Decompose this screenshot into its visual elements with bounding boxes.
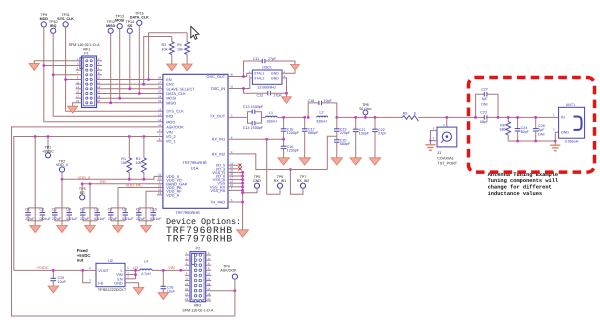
wire P1 left stub <box>76 92 82 94</box>
wire P1 pin10 to U1 EN <box>97 79 163 81</box>
svg-text:27pF: 27pF <box>268 57 277 61</box>
svg-text:14: 14 <box>158 119 161 122</box>
svg-text:VOUT: VOUT <box>98 269 109 273</box>
wire main RF line L1 to C17 <box>284 116 305 118</box>
U1 right pin numbers <box>230 74 233 203</box>
svg-text:0.01uF: 0.01uF <box>94 217 106 221</box>
capacitor C25 10uF <box>52 270 54 278</box>
U1 right pin labels <box>206 74 226 205</box>
wire VIN/EN tie <box>135 270 137 278</box>
svg-text:0.950uH: 0.950uH <box>565 140 579 144</box>
wire ANT1 GND pin riser <box>555 132 558 141</box>
wire L4 to P2 <box>152 269 185 271</box>
svg-text:680: 680 <box>500 128 506 132</box>
U1 left pin labels <box>166 77 195 197</box>
svg-text:10k: 10k <box>162 48 168 52</box>
svg-text:26: 26 <box>158 86 161 89</box>
junction MOSI-TP13 <box>118 97 121 100</box>
junction main-J1 <box>445 116 448 119</box>
junction J1 ground stub <box>429 140 431 142</box>
junction C27 loop right <box>497 116 500 119</box>
wire P1 pin7 to TP10/IRQ <box>53 74 81 76</box>
junction IRQ-P1 <box>52 73 55 76</box>
svg-text:COAXIAL: COAXIAL <box>437 156 453 160</box>
wire R4 top to EN net <box>149 33 188 80</box>
junction R1-VDD_X <box>128 178 131 181</box>
svg-text:RX_IN1: RX_IN1 <box>212 137 226 142</box>
svg-text:SS: SS <box>127 24 132 28</box>
junction rail-C24 <box>516 140 519 143</box>
svg-text:R5: R5 <box>403 112 408 116</box>
wire P1 pin5 stub <box>76 69 82 71</box>
junction main-C19 chain <box>335 116 338 119</box>
capacitor C20 680pF <box>334 140 340 142</box>
junction VIN-P2 <box>179 269 182 272</box>
svg-text:100pF: 100pF <box>359 132 370 136</box>
junction main-C21 <box>354 116 357 119</box>
junction R2 top <box>143 135 146 138</box>
ground at J1 <box>425 145 435 150</box>
wire U2 GND to ground <box>125 283 139 288</box>
svg-text:R3: R3 <box>162 43 167 47</box>
svg-text:330nH: 330nH <box>316 119 327 123</box>
svg-text:L4: L4 <box>144 260 148 264</box>
svg-text:2.2uF: 2.2uF <box>80 217 90 221</box>
svg-text:IN: IN <box>561 116 565 120</box>
wire R5 to antenna section <box>419 116 476 118</box>
svg-text:TPS61222DCKT: TPS61222DCKT <box>98 288 127 292</box>
svg-text:VDD_PA: VDD_PA <box>126 184 141 188</box>
svg-text:TRF796xRHB: TRF796xRHB <box>182 160 207 165</box>
junction TX node C15 <box>282 116 285 119</box>
svg-text:BG: BG <box>100 180 106 184</box>
svg-text:GND: GND <box>253 179 261 183</box>
junction R2-VDD_X <box>143 178 146 181</box>
wire VDD_RF net to U1 <box>146 190 163 192</box>
svg-text:10uF: 10uF <box>58 280 67 284</box>
junction main-C18 left <box>307 116 310 119</box>
junction VIN-C26 <box>162 269 165 272</box>
junction EN2 pullup R3 <box>142 83 145 86</box>
wire C23 to ANT1 <box>487 116 559 118</box>
wire P1 pin9 to TP11/SYS_CLK <box>66 79 82 81</box>
svg-text:RX_IN2: RX_IN2 <box>212 151 226 156</box>
svg-text:13.560MHz: 13.560MHz <box>257 85 276 89</box>
wire P1 pin16 to U1 DATA_CLK <box>97 93 163 95</box>
svg-text:U1A: U1A <box>191 166 199 171</box>
svg-text:VSS_PA: VSS_PA <box>210 188 225 193</box>
svg-text:OSC_OUT: OSC_OUT <box>206 74 225 79</box>
capacitor C16 1200pF <box>283 139 285 146</box>
wire P1 pin12 to U1 EN2 <box>97 83 163 85</box>
svg-text:82pF: 82pF <box>521 130 530 134</box>
svg-text:10pF: 10pF <box>324 99 333 103</box>
wire C7/C8 rails and riser <box>111 207 125 209</box>
ground below C3/C4 <box>61 221 63 226</box>
wire P2 to TP4 <box>211 290 235 292</box>
capacitor C26 2pF DNI <box>535 117 537 128</box>
svg-text:1200pF: 1200pF <box>287 131 300 135</box>
svg-text:C13 1500pF: C13 1500pF <box>243 105 264 109</box>
junction DATA_CLK-TP15 <box>138 92 141 95</box>
wire TP14/SS vertical <box>129 33 131 88</box>
svg-text:1pF: 1pF <box>481 97 488 101</box>
svg-text:C12: C12 <box>257 94 264 98</box>
svg-text:RF2: RF2 <box>194 304 201 308</box>
U2 pin stubs and numbers <box>91 269 96 271</box>
svg-text:SYS_CLK: SYS_CLK <box>57 17 74 21</box>
svg-text:27pF: 27pF <box>378 132 387 136</box>
wire RX_IN2 riser to C19/C20 tap <box>327 136 337 169</box>
wire P1 left stub <box>76 83 82 85</box>
svg-text:VDD_X: VDD_X <box>78 176 91 180</box>
wire TP10/IRQ vertical + IRQ run to U1 <box>53 33 163 116</box>
svg-text:0.01uF: 0.01uF <box>150 217 162 221</box>
junction SS-TP14 <box>128 87 131 90</box>
wire main line C19 to R5 <box>337 116 403 118</box>
wire OSC_IN to crystal pin3 <box>228 78 252 89</box>
wire U2 FB loop <box>83 270 91 282</box>
svg-text:GND: GND <box>114 281 123 285</box>
wire TX_OUT from U1 <box>228 116 248 118</box>
svg-text:ANT1: ANT1 <box>566 103 575 107</box>
ground below C21 <box>350 158 361 165</box>
svg-text:2.2uF: 2.2uF <box>136 217 146 221</box>
wire C1/C2 rails and riser <box>28 207 42 209</box>
wire RX_IN1 from U1 <box>228 138 284 140</box>
svg-text:MOD: MOD <box>40 17 49 21</box>
svg-text:IRQ: IRQ <box>50 24 57 28</box>
junction main-TP8 <box>364 116 367 119</box>
svg-text:J1: J1 <box>437 151 441 155</box>
junction rail-C26 <box>534 140 537 143</box>
wire P1 pin3 to TP9/MOD <box>44 65 82 67</box>
wire P1 right stub <box>97 60 103 62</box>
wire P1 left stub <box>76 88 82 90</box>
connector J1 coaxial test port <box>446 117 448 127</box>
U1 left pin numbers <box>158 77 161 195</box>
junction R1 top <box>128 135 131 138</box>
junction TP7-RX_IN2 <box>289 168 292 171</box>
wire TP12/MISO vertical <box>110 33 112 102</box>
junction main-C26 <box>534 116 537 119</box>
svg-text:C14 1500pF: C14 1500pF <box>243 126 264 130</box>
svg-text:DNI: DNI <box>538 132 544 136</box>
wire TP9/MOD vertical + MOD run to U1 <box>44 27 163 122</box>
wire OSC_OUT to crystal <box>228 73 252 76</box>
svg-text:68pF: 68pF <box>480 120 489 124</box>
svg-text:2.2uF: 2.2uF <box>25 217 35 221</box>
ground below C26 <box>158 293 168 300</box>
svg-text:0: 0 <box>414 112 416 116</box>
P1 pin numbers <box>76 58 100 103</box>
svg-text:inductance values: inductance values <box>488 191 543 197</box>
svg-text:1200pF: 1200pF <box>287 149 300 153</box>
capacitor C19 220pF <box>336 117 338 128</box>
ground below P1 <box>68 106 78 113</box>
svg-text:Tuning components will: Tuning components will <box>488 178 559 184</box>
no-connect pin I/O_5 <box>228 164 239 166</box>
junction MISO-TP12 <box>109 101 112 104</box>
svg-text:TRF7970RHB: TRF7970RHB <box>166 234 233 245</box>
no-connect pin I/O_3 <box>228 168 239 170</box>
svg-text:R4: R4 <box>177 43 182 47</box>
capacitor C17 680pF <box>304 117 306 128</box>
svg-text:VDD_A: VDD_A <box>166 192 179 197</box>
svg-text:DNI: DNI <box>481 103 487 107</box>
svg-text:0.01uF: 0.01uF <box>122 217 134 221</box>
wire C9/C10 rails and riser <box>139 207 153 209</box>
ground at C11 right <box>291 65 300 71</box>
svg-text:R1: R1 <box>121 157 126 161</box>
svg-text:TST_PORT: TST_PORT <box>437 162 457 166</box>
wire TP7 to RX_IN2 net <box>290 170 303 195</box>
svg-text:+5VDC: +5VDC <box>36 266 49 270</box>
junction OSC_OUT-C11 <box>242 75 245 78</box>
junction EN pullup R4 <box>147 78 150 81</box>
wire tuning bottom rail <box>508 140 555 142</box>
svg-text:2.2uF: 2.2uF <box>108 217 118 221</box>
junction C5C6 riser on BG <box>89 182 92 185</box>
svg-text:680pF: 680pF <box>308 131 319 135</box>
junction RX_IN1-C16 <box>282 138 285 141</box>
svg-text:GND: GND <box>271 72 279 76</box>
svg-text:U2: U2 <box>108 259 113 263</box>
svg-text:MISO: MISO <box>166 100 176 105</box>
svg-text:10k: 10k <box>121 161 127 165</box>
ground at P1 pin1 <box>29 64 39 71</box>
junction OSC_IN-C12 <box>242 87 245 90</box>
ground below C9/C10 <box>145 221 147 226</box>
junction main-C17 <box>303 116 306 119</box>
wire TP6 to RX_IN1 net <box>267 139 280 194</box>
junction SYS_CLK-P1 <box>64 78 67 81</box>
capacitor C11 27pF loop <box>244 61 263 77</box>
P2 left pin stubs <box>185 254 190 256</box>
wire TP11/SYS_CLK vertical + SYS_CLK run to U1 <box>66 27 163 111</box>
svg-text:R2: R2 <box>136 157 141 161</box>
svg-text:12: 12 <box>158 108 161 111</box>
svg-text:GND: GND <box>561 130 569 134</box>
wire TP4 to bottom rail <box>234 279 236 316</box>
wire P1 pin14 to U1 SLAVE SELECT <box>97 88 163 90</box>
svg-text:P1: P1 <box>84 51 88 55</box>
svg-text:680pF: 680pF <box>340 142 351 146</box>
wire P1 right stub <box>97 69 103 71</box>
junction C12-ground <box>285 92 288 95</box>
junction main-C22 <box>374 116 377 119</box>
svg-text:SFM-110-02-L-D-A: SFM-110-02-L-D-A <box>182 308 214 312</box>
ground below C20 <box>331 158 342 165</box>
svg-text:TX_OUT: TX_OUT <box>210 113 226 118</box>
wire R3 top to EN2 net <box>144 37 172 85</box>
svg-text:4.7uH: 4.7uH <box>141 272 151 276</box>
junction C1C2 riser <box>34 135 37 138</box>
svg-text:change for different: change for different <box>488 185 552 191</box>
svg-text:XTAL2: XTAL2 <box>254 76 264 80</box>
red dashed highlight box <box>469 78 595 173</box>
P2 right pin stubs <box>206 254 212 256</box>
svg-text:21: 21 <box>158 185 161 188</box>
junction rail-GND riser <box>554 140 557 143</box>
svg-text:2.2uF: 2.2uF <box>52 217 62 221</box>
ground at C12 <box>286 93 288 97</box>
svg-text:OSC_IN: OSC_IN <box>211 86 226 91</box>
mouse cursor <box>191 26 199 39</box>
capacitor C15 1200pF <box>283 117 285 128</box>
svg-text:18: 18 <box>158 188 161 191</box>
svg-text:DATA_CLK: DATA_CLK <box>130 15 149 19</box>
wire C3/C4 rails and riser <box>55 207 69 209</box>
junction +5VDC-C25 <box>52 269 55 272</box>
capacitor C22 27pF <box>374 117 376 129</box>
wire P1 pin19 to ground <box>73 103 82 106</box>
capacitor C27 1pF DNI bypass loop <box>476 94 485 117</box>
svg-text:150nH: 150nH <box>266 119 277 123</box>
wire into tuning network <box>476 116 485 118</box>
wire RX_IN2 route <box>228 154 327 170</box>
svg-text:TRF7960RHB: TRF7960RHB <box>175 210 200 215</box>
wire ASK/OOK route left-down-bottom to TP4 <box>12 127 235 316</box>
svg-text:0.01uF: 0.01uF <box>66 217 78 221</box>
wire TP15/DATA_CLK vertical <box>138 26 140 94</box>
svg-text:27pF: 27pF <box>274 94 283 98</box>
svg-text:MOSI: MOSI <box>115 19 124 23</box>
capacitor C26 10uF at VIN <box>162 270 164 286</box>
svg-text:C11: C11 <box>253 57 259 61</box>
svg-text:C27: C27 <box>481 87 488 91</box>
wire TP5 to VSS bus <box>243 188 257 193</box>
capacitor C18 10pF bypass loop <box>308 103 319 118</box>
ground in tuning area <box>554 141 556 145</box>
svg-text:23: 23 <box>158 100 161 103</box>
svg-text:C23: C23 <box>480 111 487 115</box>
junction TP5-bus <box>241 191 244 194</box>
ground below C16 <box>278 158 289 165</box>
svg-text:13: 13 <box>158 113 161 116</box>
svg-text:FB: FB <box>98 281 103 285</box>
wire P1 right stub <box>97 64 103 66</box>
P2 pin numbers <box>185 252 211 301</box>
svg-text:I/O_1: I/O_1 <box>166 139 176 144</box>
wire P1 left stub <box>76 97 82 99</box>
svg-text:L2: L2 <box>320 111 324 115</box>
svg-text:out: out <box>77 257 84 262</box>
svg-text:GND: GND <box>271 76 279 80</box>
svg-text:P2: P2 <box>195 247 200 251</box>
capacitor C12 27pF loop <box>244 89 268 94</box>
svg-text:ASK/OOK: ASK/OOK <box>220 269 237 273</box>
VSS bus bar with pin stubs <box>228 171 243 173</box>
wire VDD_PA net to U1 <box>118 187 163 189</box>
wire P1 right stub <box>97 74 103 76</box>
junction MOD-P1 <box>42 64 45 67</box>
svg-text:VIN: VIN <box>168 266 175 270</box>
svg-text:LD: LD <box>133 266 138 270</box>
svg-text:MISO: MISO <box>106 24 115 28</box>
wire C5/C6 rails and riser <box>83 207 97 209</box>
U1 left stub pins <box>157 131 163 133</box>
ground below C22 <box>369 158 380 165</box>
ground below C5/C6 <box>89 221 91 226</box>
ground below C17 <box>299 158 310 165</box>
svg-text:0.01uF: 0.01uF <box>40 217 52 221</box>
wire +5VDC rail to U1 VIN <box>14 137 163 271</box>
ground below R3 <box>167 64 177 71</box>
svg-text:220pF: 220pF <box>340 131 351 135</box>
wire VDD_X net to U1 <box>62 176 163 179</box>
svg-text:OSC1: OSC1 <box>262 66 272 70</box>
svg-text:32: 32 <box>158 174 161 177</box>
op-amp U1 TRF7960RHB main IC box <box>163 74 228 208</box>
test point TP1 +5VDC <box>47 137 49 153</box>
svg-text:C18: C18 <box>308 99 315 103</box>
svg-text:25: 25 <box>158 91 161 94</box>
crystal pin numbers <box>249 70 286 78</box>
svg-text:24: 24 <box>158 95 161 98</box>
junction main-R6 <box>507 116 510 119</box>
svg-text:L1: L1 <box>269 111 273 115</box>
svg-text:28: 28 <box>158 77 161 80</box>
svg-text:10k: 10k <box>135 161 141 165</box>
wire +5VDC to U2 VOUT <box>14 269 91 271</box>
svg-text:27: 27 <box>158 81 161 84</box>
wire P1 pin20 to U1 MISO <box>97 102 163 104</box>
ground below R4 <box>182 64 192 71</box>
svg-text:RX_IN2: RX_IN2 <box>297 179 310 183</box>
junction FB loop <box>81 269 84 272</box>
wire J1 pins 1,3 to ground <box>430 129 437 131</box>
junction C27 loop left <box>474 116 477 119</box>
ground below C25 <box>48 286 58 293</box>
wire P1 pin18 to U1 MOSI <box>97 97 163 99</box>
junction main-C24 <box>516 116 519 119</box>
ground below U2 <box>133 288 143 295</box>
svg-text:IRQ: IRQ <box>166 114 173 119</box>
junction TP6-RX_IN1 <box>265 138 268 141</box>
ground below C1/C2 <box>34 221 36 226</box>
svg-text:RX_IN1: RX_IN1 <box>274 179 287 183</box>
ground below C7/C8 <box>117 221 119 226</box>
junction TP4 wire <box>234 289 237 292</box>
svg-text:10k: 10k <box>177 48 183 52</box>
svg-text:TH_PAD: TH_PAD <box>210 200 225 205</box>
capacitor C24 82pF <box>517 117 519 128</box>
svg-text:XTAL1: XTAL1 <box>254 72 264 76</box>
wire BG net to U1 <box>82 183 163 185</box>
wire TP13/MOSI vertical <box>119 29 121 98</box>
ground below VSS bus <box>237 230 249 237</box>
wire P1 pin1 to ground <box>34 61 81 64</box>
capacitor C21 100pF <box>355 117 357 129</box>
